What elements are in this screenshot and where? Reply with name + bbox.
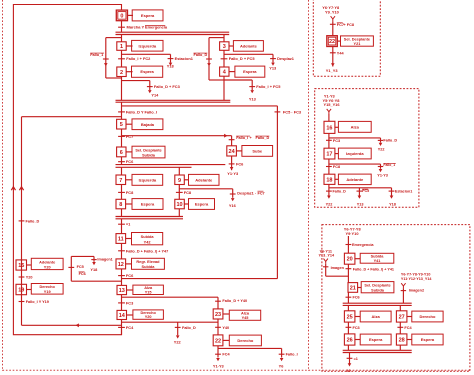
step 9 (175, 175, 185, 185)
transition Fallo_D+Fallo_I+Y41 (346, 267, 394, 271)
svg-text:Subida: Subida (371, 289, 385, 293)
svg-text:1: 1 (120, 44, 123, 50)
wire step11-action (126, 238, 132, 240)
svg-text:Fallo_I: Fallo_I (236, 136, 248, 140)
arrow up on left column (19, 187, 23, 190)
step 22 (213, 335, 223, 346)
svg-text:12: 12 (118, 262, 124, 268)
transition FC6 (step6) (118, 159, 134, 164)
step 14 (117, 310, 127, 319)
step 11 (116, 234, 126, 244)
svg-text:Fallo_I + FC2: Fallo_I + FC2 (126, 56, 151, 61)
svg-text:Y18: Y18 (90, 267, 98, 272)
wire step6 down (121, 157, 123, 165)
svg-text:Subida: Subida (142, 154, 156, 158)
wire step25-action (355, 316, 360, 318)
wire left column (21, 117, 23, 326)
transition Fallo_D+Fallo_I+Y47 (118, 249, 168, 253)
wire step10 down (178, 209, 180, 217)
svg-text:FC8: FC8 (333, 165, 340, 169)
transition Fallo_I + Fallo_D (229, 136, 270, 140)
svg-text:Y9·Y10: Y9·Y10 (346, 231, 359, 236)
svg-text:Alza: Alza (351, 124, 360, 129)
svg-text:Adelante: Adelante (39, 260, 55, 264)
wire step0-action (128, 14, 134, 16)
wire join down exit (349, 353, 351, 365)
branch FC5 to Y13 (357, 188, 370, 207)
svg-text:19: 19 (18, 288, 24, 294)
wire split to step1 (121, 35, 123, 42)
wire step1-action (126, 45, 132, 47)
branch Estacion1 exit (167, 54, 194, 68)
wire step16 down (328, 133, 330, 148)
wire mid down to 16 (328, 114, 330, 121)
svg-text:Y16: Y16 (229, 203, 237, 208)
wire join2 down (121, 219, 123, 234)
transition FC6 (step24) (229, 161, 244, 166)
wire step5 down (121, 129, 123, 147)
wire step27-action (407, 316, 412, 318)
wire step4-action (229, 71, 235, 73)
wire step14 down (121, 320, 123, 335)
branch Estacion1 to Y18 (389, 188, 413, 207)
svg-text:Y45: Y45 (242, 316, 250, 320)
action box Sube (step 24) (242, 146, 273, 157)
svg-text:Y9_Y10: Y9_Y10 (325, 10, 339, 15)
transition FC3 (br) (346, 326, 360, 330)
transition Marcha.Emergencia (118, 25, 168, 30)
action box Espera (step 2) (132, 66, 163, 77)
wire step20 down (347, 264, 349, 282)
svg-text:FC3: FC3 (126, 300, 134, 305)
wire to step25 (347, 305, 349, 310)
svg-text:Y11·Y12·Y13_Y14: Y11·Y12·Y13_Y14 (401, 277, 432, 281)
svg-text:Sube: Sube (252, 148, 263, 153)
action box Espera (step 26) (360, 334, 391, 345)
label Y6-Y11 Y13_Y14 (319, 250, 336, 258)
svg-text:Izquierda: Izquierda (346, 151, 364, 156)
action box Espera (step 4) (235, 66, 265, 77)
svg-text:Estacion1: Estacion1 (395, 190, 412, 194)
wire imagen2 branch (401, 288, 424, 303)
svg-text:Y41: Y41 (374, 259, 382, 263)
step 16 (324, 121, 335, 133)
transition FC6 (step12) (118, 273, 134, 278)
wire step21-action (358, 287, 362, 289)
svg-text:Y13_Y14: Y13_Y14 (319, 254, 336, 258)
svg-text:Fallo_D: Fallo_D (383, 139, 397, 143)
svg-text:Fallo_D: Fallo_D (194, 53, 208, 57)
svg-text:Derecho: Derecho (237, 338, 254, 343)
transition FC8 (17) (326, 165, 340, 169)
step 15 (16, 260, 27, 270)
transition =1 (118, 222, 131, 227)
action box Subida Y41 (step 20) (360, 253, 394, 263)
svg-text:11: 11 (118, 237, 124, 243)
action box Espera (step 0) (132, 10, 163, 21)
transition Fallo_D + Y40 (215, 299, 247, 303)
svg-text:17: 17 (326, 152, 332, 158)
action box Adelante Y20 (step 15) (31, 258, 63, 269)
transition FC4 (br) (397, 326, 412, 330)
svg-text:Y6: Y6 (279, 364, 285, 369)
svg-text:Sel. Desplante: Sel. Desplante (364, 284, 390, 288)
svg-text:Y18: Y18 (389, 203, 396, 207)
wire imagen branch (323, 264, 348, 276)
svg-text:Derecho: Derecho (40, 285, 56, 289)
entry connector Imagen (324, 259, 328, 264)
wire step4 down (223, 76, 225, 100)
svg-text:7: 7 (119, 178, 122, 184)
action box Derecho (step 27) (412, 311, 443, 322)
wire step7 down (121, 185, 123, 200)
wire step25 down (347, 322, 349, 334)
svg-text:Adelante: Adelante (346, 177, 364, 182)
wire step14-action (127, 314, 133, 316)
svg-text:FC6: FC6 (353, 296, 360, 300)
svg-text:Y15_Y16: Y15_Y16 (324, 102, 341, 107)
wire step17-action (335, 153, 339, 155)
svg-text:Y1·Y3: Y1·Y3 (227, 171, 239, 176)
wire skip branch right (Fallo_D) (209, 38, 224, 80)
wire step19-action (27, 289, 32, 291)
svg-text:Y1_Y3: Y1_Y3 (326, 68, 339, 73)
wire left return junction (22, 116, 122, 118)
wire step10-action (184, 203, 188, 205)
middle-right dashed box (315, 89, 419, 208)
action box Alza (step 25) (360, 311, 391, 322)
arrow step22 exit (213, 358, 225, 369)
svg-text:+ FC8: + FC8 (344, 23, 354, 27)
wire step9-action (184, 179, 188, 181)
parallel join double bar (116, 100, 231, 102)
wire step3 down + OR divergence (224, 50, 273, 67)
svg-text:Izquierda: Izquierda (139, 43, 157, 48)
svg-text:25: 25 (347, 314, 353, 320)
svg-text:FC4: FC4 (126, 325, 134, 330)
wire step8-action (126, 203, 132, 205)
arrow tr exit (326, 63, 339, 73)
svg-text:Imagen2: Imagen2 (409, 289, 424, 293)
action box Bajada (step 5) (132, 119, 163, 130)
wire step26 down (347, 345, 349, 350)
wire skip branch left (Fallo_1) (106, 38, 122, 78)
step 4 (220, 67, 229, 76)
svg-text:Derecho: Derecho (419, 314, 436, 319)
wire step16-action (335, 126, 339, 128)
wire step24-action (236, 150, 242, 152)
svg-text:Imagen: Imagen (331, 266, 345, 270)
wire main return loop (top/left/bottom) (13, 5, 121, 335)
svg-text:9: 9 (178, 178, 181, 184)
svg-text:Y44: Y44 (337, 51, 345, 55)
action box Espera (step 10) (189, 199, 215, 210)
svg-text:Estacion1: Estacion1 (175, 56, 194, 61)
svg-text:Subida: Subida (141, 235, 155, 239)
svg-text:Y22: Y22 (326, 203, 333, 207)
svg-text:Y1·Y3: Y1·Y3 (377, 174, 388, 178)
svg-text:20: 20 (346, 368, 350, 373)
svg-text:FC6: FC6 (79, 272, 86, 276)
parallel join double bar 2 (116, 217, 184, 219)
svg-text:Espera: Espera (421, 337, 435, 342)
svg-text:Y40: Y40 (222, 326, 229, 330)
branch Desplaz1 exit (269, 54, 295, 70)
action box Alza (step 16) (338, 121, 371, 132)
branch Fallo_D exit Y22 (bottom) (174, 322, 196, 344)
parallel split double bar 2 (116, 165, 226, 168)
action box Espera (step 8) (132, 199, 163, 210)
branch Desplaz FC7 exit Y16 (179, 189, 264, 208)
transition FC8 (right) (176, 190, 192, 195)
wire split to step3 (223, 35, 225, 42)
svg-text:5: 5 (120, 122, 123, 128)
svg-text:Desplaz1 ·: Desplaz1 · (237, 191, 256, 195)
svg-text:Y22: Y22 (378, 148, 385, 152)
page bottom dotted border (3, 369, 472, 371)
svg-text:FC7: FC7 (126, 134, 133, 139)
svg-text:Y13: Y13 (357, 203, 364, 207)
svg-text:Sel. Desplante: Sel. Desplante (135, 148, 161, 152)
step 8 (116, 199, 126, 209)
entry connector (middle) (327, 109, 331, 114)
svg-text:28: 28 (399, 338, 405, 344)
transition FC4 (step14) (118, 325, 134, 330)
action box Sel Desplante Subida (step 21) (361, 282, 394, 293)
wire step11 down (121, 243, 123, 259)
svg-text:Fallo_D: Fallo_D (26, 219, 40, 223)
svg-text:24: 24 (229, 149, 236, 155)
svg-text:FC4: FC4 (222, 353, 230, 357)
step 6 (117, 147, 126, 157)
wire step18 down + OR line (329, 184, 392, 195)
wire step13 down (121, 295, 123, 311)
svg-text:Fallo_D + FC5: Fallo_D + FC5 (229, 56, 256, 61)
svg-text:23: 23 (215, 312, 221, 318)
arrow skip right down (207, 63, 211, 66)
svg-text:Subida: Subida (142, 265, 156, 269)
step 17 (324, 148, 335, 159)
svg-text:Alza: Alza (372, 314, 381, 319)
transition Fallo_D (skip) (194, 53, 212, 59)
svg-text:21: 21 (350, 285, 356, 291)
branch Fallo_D to Y22 (326, 190, 347, 207)
branch Fallo_I exit Y6 (279, 348, 298, 368)
branch Fallo_I + FC5 exit Y13 (224, 80, 281, 101)
wire join down (121, 102, 123, 119)
svg-text:Y1·Y3: Y1·Y3 (213, 364, 225, 369)
svg-text:Y19: Y19 (44, 290, 51, 294)
svg-text:FC5: FC5 (362, 189, 369, 193)
transition FC6 (br) (346, 296, 360, 300)
svg-text:FC3: FC3 (353, 326, 360, 330)
svg-text:26: 26 (347, 338, 353, 344)
action box Regr Elevad Subida (step 12) (132, 258, 165, 269)
svg-text:Desplaz1: Desplaz1 (277, 56, 295, 61)
label Y1-Y3 Y5-Y6-Y8 Y15_Y16 (323, 93, 341, 107)
wire step9 down (178, 185, 180, 200)
arrow up on outer loop (11, 187, 15, 190)
step 28 (396, 334, 407, 345)
bottom-right dashed box (322, 225, 470, 372)
wire tr step-action (337, 40, 340, 42)
wire step28 down (399, 345, 401, 350)
wire step5-action (126, 123, 132, 125)
svg-text:20: 20 (347, 257, 353, 263)
svg-text:Alza: Alza (241, 312, 250, 316)
svg-text:FC6: FC6 (126, 273, 134, 278)
branch Fallo_1 exit Y1_Y3 (329, 163, 396, 177)
svg-text:FC8: FC8 (184, 190, 192, 195)
wire long return to FC5FC3 (122, 278, 278, 280)
svg-text:=1: =1 (354, 357, 358, 361)
svg-text:Imagen1: Imagen1 (97, 257, 112, 261)
action box Alza Y15 (step 13) (133, 285, 164, 294)
svg-text:Espera: Espera (141, 13, 155, 18)
wire step28-action (407, 339, 412, 341)
transition FC8 (left) (118, 190, 134, 195)
wire return left with arrow (22, 323, 122, 327)
svg-text:Fallo_1: Fallo_1 (383, 163, 395, 167)
svg-text:Fallo_I: Fallo_I (286, 353, 298, 357)
step 20 (344, 253, 355, 264)
svg-text:Y18: Y18 (167, 63, 175, 68)
action box Izquierda (step 7) (132, 174, 163, 185)
svg-text:Espera: Espera (141, 202, 155, 207)
svg-text:0: 0 (120, 13, 123, 19)
step 5 (117, 119, 126, 129)
transition Fallo_D Y Fallo_I (118, 109, 157, 114)
wire step22-action (223, 339, 229, 341)
transition FC3 (step13) (118, 300, 134, 305)
svg-text:Izquierda: Izquierda (139, 177, 157, 182)
wire to step7 (121, 167, 123, 175)
wire step6-action (126, 151, 132, 153)
wire tr step down (332, 47, 334, 67)
wire step26-action (355, 339, 360, 341)
svg-text:Y42: Y42 (144, 241, 151, 245)
svg-text:Adelante: Adelante (240, 43, 258, 48)
svg-text:Y20: Y20 (145, 315, 152, 319)
action box Sel Desplante Y21 (341, 36, 374, 46)
branch Fallo_D exit Y22 (mid) (329, 138, 397, 152)
svg-text:FC7: FC7 (258, 191, 265, 195)
svg-text:22: 22 (329, 39, 335, 45)
wire right skip FC5.FC3 long path (122, 106, 278, 279)
branch Fallo_D + FC3 exit Y14 (122, 81, 181, 98)
action box Adelante (step 9) (189, 174, 220, 185)
transition =1 (br) (347, 357, 358, 361)
wire step24 down (231, 156, 233, 170)
action box Adelante (step 3) (233, 41, 263, 52)
svg-text:Fallo_D: Fallo_D (333, 190, 347, 194)
action box Derecho Y20 (step 14) (133, 310, 164, 319)
svg-text:FC5: FC5 (77, 265, 84, 269)
transition Y20 (19, 276, 33, 280)
wire step22 down + OR line (218, 346, 282, 358)
wire step21 down (347, 292, 349, 303)
svg-text:FC6: FC6 (126, 159, 134, 164)
label Y6-Y7-Y8 Y9-Y10 (bottom) (344, 227, 362, 236)
svg-text:Emergencia: Emergencia (352, 243, 374, 247)
wire tr down (332, 21, 334, 35)
top-right dashed box (313, 0, 380, 76)
svg-text:Fallo_D + Fallo_I) + Y47: Fallo_D + Fallo_I) + Y47 (126, 249, 168, 253)
step 19 (16, 284, 27, 294)
wire step12 down (121, 269, 123, 286)
step 26 (344, 334, 355, 345)
arrow step24 exit (227, 167, 239, 176)
svg-text:FC4: FC4 (404, 326, 412, 330)
step 1 (117, 42, 126, 51)
parallel split double bar (116, 32, 230, 34)
wire to step9 (178, 167, 180, 175)
branch to step 24 (122, 134, 232, 146)
transition Emergencia (br) (346, 243, 375, 247)
svg-text:Y15: Y15 (145, 290, 153, 294)
svg-text:Espera: Espera (140, 69, 154, 74)
svg-text:Sel. Desplante: Sel. Desplante (344, 37, 370, 41)
page divider dotted line (308, 0, 310, 371)
entry connector (top-right) (331, 16, 335, 21)
wire step8 down (121, 209, 123, 217)
transition Y44 (330, 51, 345, 55)
transition FC4 (step22) (215, 353, 230, 357)
step 21 (348, 283, 358, 293)
action box Adelante (step 18) (338, 174, 371, 185)
svg-text:Y20: Y20 (44, 265, 51, 269)
wire br down to 20 (347, 236, 349, 253)
wire step3-action (229, 45, 233, 47)
wire step13-action (127, 289, 133, 291)
svg-text:Y22: Y22 (174, 339, 182, 344)
svg-text:Fallo_I Y Y19: Fallo_I Y Y19 (26, 300, 49, 304)
svg-text:2: 2 (120, 70, 123, 76)
svg-text:15: 15 (18, 263, 24, 269)
transition FC7+FC8 (330, 23, 354, 27)
step 25 (344, 311, 355, 322)
svg-text:Fallo_D: Fallo_D (182, 326, 196, 330)
svg-text:Fallo_1: Fallo_1 (90, 53, 103, 57)
svg-text:Fallo_I + FC5: Fallo_I + FC5 (256, 84, 281, 89)
wire step18-action (335, 178, 339, 180)
svg-text:3: 3 (223, 44, 226, 50)
transition Fallo_I Y Y19 (19, 300, 49, 304)
svg-text:FC6: FC6 (236, 161, 244, 166)
branch FC5/FC6 to spine (68, 256, 121, 281)
step 2 (117, 67, 126, 77)
step 22 (macro) (327, 36, 338, 47)
svg-text:Espera: Espera (243, 69, 257, 74)
action box Izquierda (step 17) (338, 148, 371, 159)
svg-text:FC3: FC3 (333, 139, 340, 143)
svg-text:Y21: Y21 (354, 42, 362, 46)
svg-text:FC8: FC8 (126, 190, 134, 195)
step 13 (117, 285, 127, 294)
OR divergence line below 13 (122, 296, 219, 298)
svg-text:Fallo_D + FC3: Fallo_D + FC3 (154, 84, 181, 89)
svg-text:Fallo_D + Fallo_I) + Y41: Fallo_D + Fallo_I) + Y41 (353, 267, 394, 271)
action box Izquierda (step 1) (132, 40, 163, 51)
action box Alza Y45 (step 23) (229, 310, 260, 320)
svg-text:10: 10 (176, 202, 182, 208)
svg-text:Espera: Espera (369, 337, 383, 342)
transition Fallo_I + FC2 (118, 56, 151, 61)
wire step15-action (27, 264, 32, 266)
wire step0 down (121, 21, 123, 33)
wire step17 down (328, 159, 330, 174)
parallel split double bar (br) (343, 303, 412, 305)
